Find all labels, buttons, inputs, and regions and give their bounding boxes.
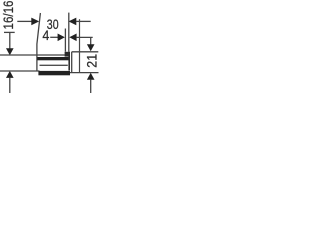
bracket left edge — [71, 52, 73, 73]
left dimension line upper segment — [9, 32, 11, 49]
extension line top-right (lip top level) — [72, 51, 99, 53]
lip (front stop edge at wall side) — [65, 52, 70, 57]
left dimension line lower segment — [9, 78, 11, 94]
left dimension up arrow — [6, 71, 14, 78]
30 dimension right-pointing arrow — [31, 18, 39, 26]
extension line x=37.8 (object front edge, up to top) — [37, 13, 41, 71]
21 dimension down arrow — [87, 44, 95, 51]
left dimension down arrow — [6, 48, 14, 55]
4 dimension left extension line — [64, 29, 66, 52]
shelf bottom plate (thick cut band) — [38, 71, 70, 75]
4 dimension left-pointing arrow — [69, 34, 76, 42]
extension line bottom-left — [0, 70, 40, 72]
21 dimension lower line segment — [90, 79, 92, 93]
shelf mid line — [40, 64, 68, 66]
svg-text:4: 4 — [42, 28, 49, 43]
21 dimension upper line segment — [90, 37, 92, 44]
30 dimension left-pointing arrow — [69, 18, 77, 26]
30 dimension right tail — [76, 20, 91, 22]
30 dimension left tail — [17, 20, 32, 22]
extension line bottom-right — [69, 72, 99, 74]
svg-text:21: 21 — [85, 54, 100, 68]
extension line / shelf rim top line — [0, 54, 65, 56]
shelf top plate (thick cut band) — [37, 57, 70, 60]
vertical mounting plate — [68, 52, 70, 71]
4 dimension right-pointing arrow — [58, 34, 65, 42]
tick under 16/16 text — [4, 31, 15, 33]
4 dimension line left segment — [50, 36, 58, 38]
extension line right of 30/4 dims — [68, 13, 70, 52]
21 dimension up arrow — [87, 73, 95, 80]
wall line — [79, 19, 81, 72]
svg-text:16/16: 16/16 — [0, 0, 16, 29]
4 dimension right tail — [76, 36, 93, 38]
